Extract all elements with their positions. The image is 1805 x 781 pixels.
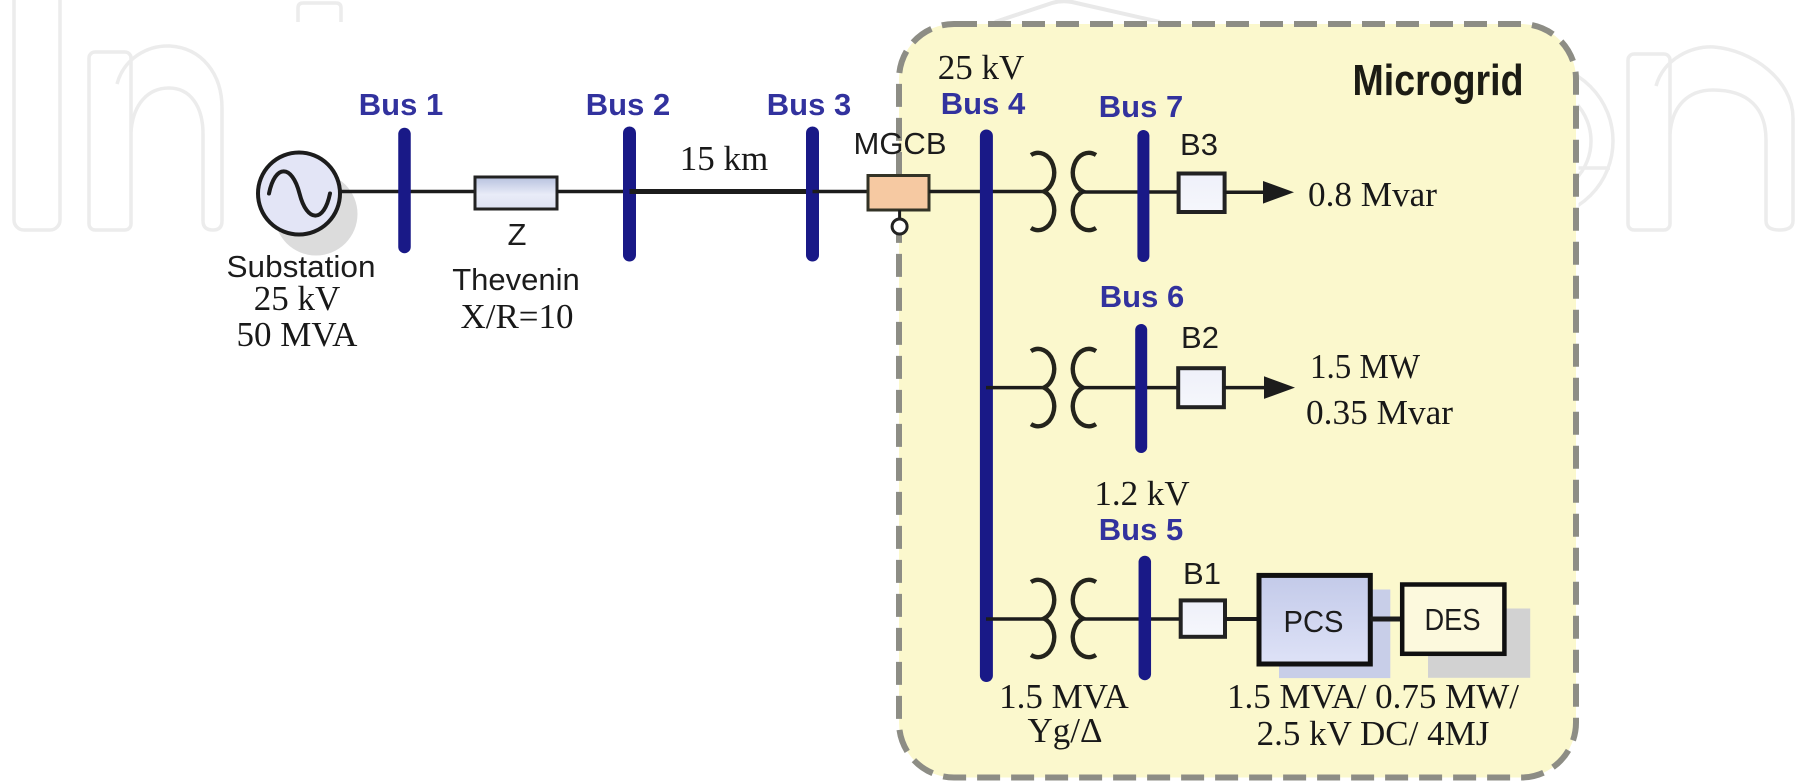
svg-text:1.2 kV: 1.2 kV	[1094, 474, 1189, 513]
transformer T1	[1031, 153, 1096, 230]
watermark fragment top	[298, 3, 341, 22]
svg-text:B1: B1	[1183, 556, 1221, 591]
svg-text:25 kV: 25 kV	[254, 279, 341, 318]
svg-text:MGCB: MGCB	[854, 126, 947, 161]
bus Bus 5	[1139, 562, 1152, 674]
wire T2 to Bus 6 to B2	[1081, 386, 1178, 390]
converter PCS	[1259, 575, 1370, 664]
transformer T2	[1031, 349, 1096, 426]
svg-text:Bus 7: Bus 7	[1099, 89, 1183, 124]
wire Z to Bus 2	[557, 190, 629, 194]
AC source shadow	[275, 173, 358, 256]
wire T1 to Bus 7 to B3	[1081, 190, 1179, 194]
svg-text:Bus 6: Bus 6	[1100, 279, 1184, 314]
PCS shadow	[1279, 590, 1390, 679]
MGCB status node	[898, 210, 901, 219]
svg-text:25 kV: 25 kV	[938, 48, 1025, 87]
wire Bus 3 to MGCB	[813, 190, 869, 194]
breaker B2	[1178, 368, 1224, 407]
svg-text:50 MVA: 50 MVA	[237, 315, 359, 354]
AC source G1 (Substation)	[258, 153, 340, 235]
svg-text:Z: Z	[508, 217, 527, 252]
svg-text:1.5 MVA/ 0.75 MW/: 1.5 MVA/ 0.75 MW/	[1227, 677, 1519, 716]
storage DES	[1402, 585, 1504, 654]
watermark letter I	[14, 0, 60, 230]
svg-text:Thevenin: Thevenin	[452, 262, 580, 297]
load arrow 1.5 MW 0.35 Mvar	[1224, 386, 1268, 390]
svg-text:Yg/Δ: Yg/Δ	[1027, 711, 1102, 750]
wire PCS to DES	[1370, 617, 1402, 622]
svg-text:2.5 kV DC/ 4MJ: 2.5 kV DC/ 4MJ	[1257, 714, 1490, 753]
wire Bus 4 to T3	[986, 617, 1044, 621]
wire Bus 4 to T2	[986, 386, 1044, 390]
breaker B1	[1181, 600, 1225, 636]
svg-text:Bus 2: Bus 2	[586, 87, 670, 122]
svg-text:B2: B2	[1181, 320, 1219, 355]
watermark letter n	[89, 46, 222, 230]
svg-text:1.5 MW: 1.5 MW	[1310, 347, 1420, 386]
impedance Z (Thevenin)	[475, 177, 557, 209]
bus Bus 7	[1137, 136, 1149, 256]
figure background	[225, 22, 1579, 781]
wire T3 to Bus 5 to B1	[1081, 617, 1181, 621]
svg-text:X/R=10: X/R=10	[460, 297, 573, 336]
svg-text:Bus 4: Bus 4	[941, 86, 1026, 121]
svg-text:DES: DES	[1425, 602, 1481, 637]
bus Bus 6	[1135, 330, 1147, 447]
microgrid boundary	[899, 24, 1576, 778]
svg-text:Bus 1: Bus 1	[359, 87, 443, 122]
wire B1 to PCS	[1225, 617, 1259, 621]
svg-text:PCS: PCS	[1284, 604, 1344, 639]
wire MGCB to Bus 4 and T1	[929, 190, 1044, 194]
load arrow 0.8 Mvar	[1225, 191, 1268, 195]
svg-text:15 km: 15 km	[680, 139, 768, 178]
line 15 km	[630, 189, 813, 194]
svg-text:Bus 5: Bus 5	[1099, 512, 1183, 547]
svg-text:Microgrid: Microgrid	[1353, 56, 1524, 105]
svg-text:B3: B3	[1180, 127, 1218, 162]
watermark letter n (right)	[1628, 47, 1793, 230]
DES shadow	[1428, 609, 1530, 678]
svg-text:Bus 3: Bus 3	[767, 87, 851, 122]
watermark letter e (right, mostly hidden)	[1459, 64, 1613, 218]
wire source to Z	[338, 190, 477, 194]
watermark chevron fragment top	[995, 1, 1160, 22]
bus Bus 2	[623, 133, 636, 255]
svg-text:0.8 Mvar: 0.8 Mvar	[1308, 175, 1437, 214]
transformer T3	[1031, 580, 1096, 657]
breaker MGCB	[868, 176, 929, 211]
bus Bus 3	[806, 133, 819, 255]
bus Bus 4	[980, 136, 993, 676]
breaker B3	[1179, 174, 1225, 213]
bus Bus 1	[398, 134, 411, 247]
svg-text:0.35 Mvar: 0.35 Mvar	[1306, 393, 1453, 432]
